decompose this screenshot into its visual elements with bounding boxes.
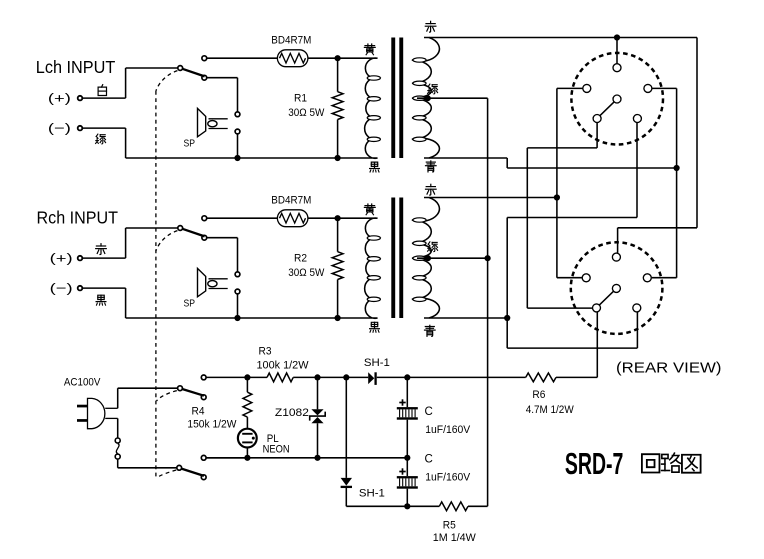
svg-text:1uF/160V: 1uF/160V xyxy=(425,424,471,436)
svg-text:Rch INPUT: Rch INPUT xyxy=(37,208,119,228)
svg-text:(REAR VIEW): (REAR VIEW) xyxy=(616,360,722,377)
svg-text:(+): (+) xyxy=(48,90,71,105)
svg-text:(−): (−) xyxy=(48,120,71,135)
svg-text:SP: SP xyxy=(184,297,196,309)
svg-text:NEON: NEON xyxy=(263,444,290,456)
svg-text:SH-1: SH-1 xyxy=(364,357,390,369)
svg-text:R1: R1 xyxy=(294,93,307,105)
svg-text:SP: SP xyxy=(184,137,196,149)
svg-text:AC100V: AC100V xyxy=(64,377,101,389)
svg-text:Lch INPUT: Lch INPUT xyxy=(36,57,116,77)
svg-text:R3: R3 xyxy=(259,346,272,358)
svg-text:Z1082: Z1082 xyxy=(275,407,309,419)
svg-text:(+): (+) xyxy=(50,250,73,265)
svg-text:R4: R4 xyxy=(192,406,205,418)
svg-text:R6: R6 xyxy=(532,389,545,401)
svg-text:(−): (−) xyxy=(50,280,73,295)
svg-text:30Ω 5W: 30Ω 5W xyxy=(288,267,325,279)
svg-text:SH-1: SH-1 xyxy=(359,487,385,499)
svg-text:1M 1/4W: 1M 1/4W xyxy=(433,532,477,544)
svg-text:150k 1/2W: 150k 1/2W xyxy=(187,419,237,431)
svg-text:4.7M 1/2W: 4.7M 1/2W xyxy=(526,404,575,416)
svg-text:C: C xyxy=(425,406,433,418)
svg-text:100k 1/2W: 100k 1/2W xyxy=(257,360,310,372)
svg-text:R5: R5 xyxy=(443,519,456,531)
svg-text:30Ω 5W: 30Ω 5W xyxy=(288,107,325,119)
svg-text:BD4R7M: BD4R7M xyxy=(271,194,311,206)
svg-text:R2: R2 xyxy=(294,253,307,265)
svg-text:C: C xyxy=(425,453,433,465)
svg-text:1uF/160V: 1uF/160V xyxy=(425,472,471,484)
svg-text:BD4R7M: BD4R7M xyxy=(271,34,311,46)
svg-text:SRD-7: SRD-7 xyxy=(565,447,624,481)
